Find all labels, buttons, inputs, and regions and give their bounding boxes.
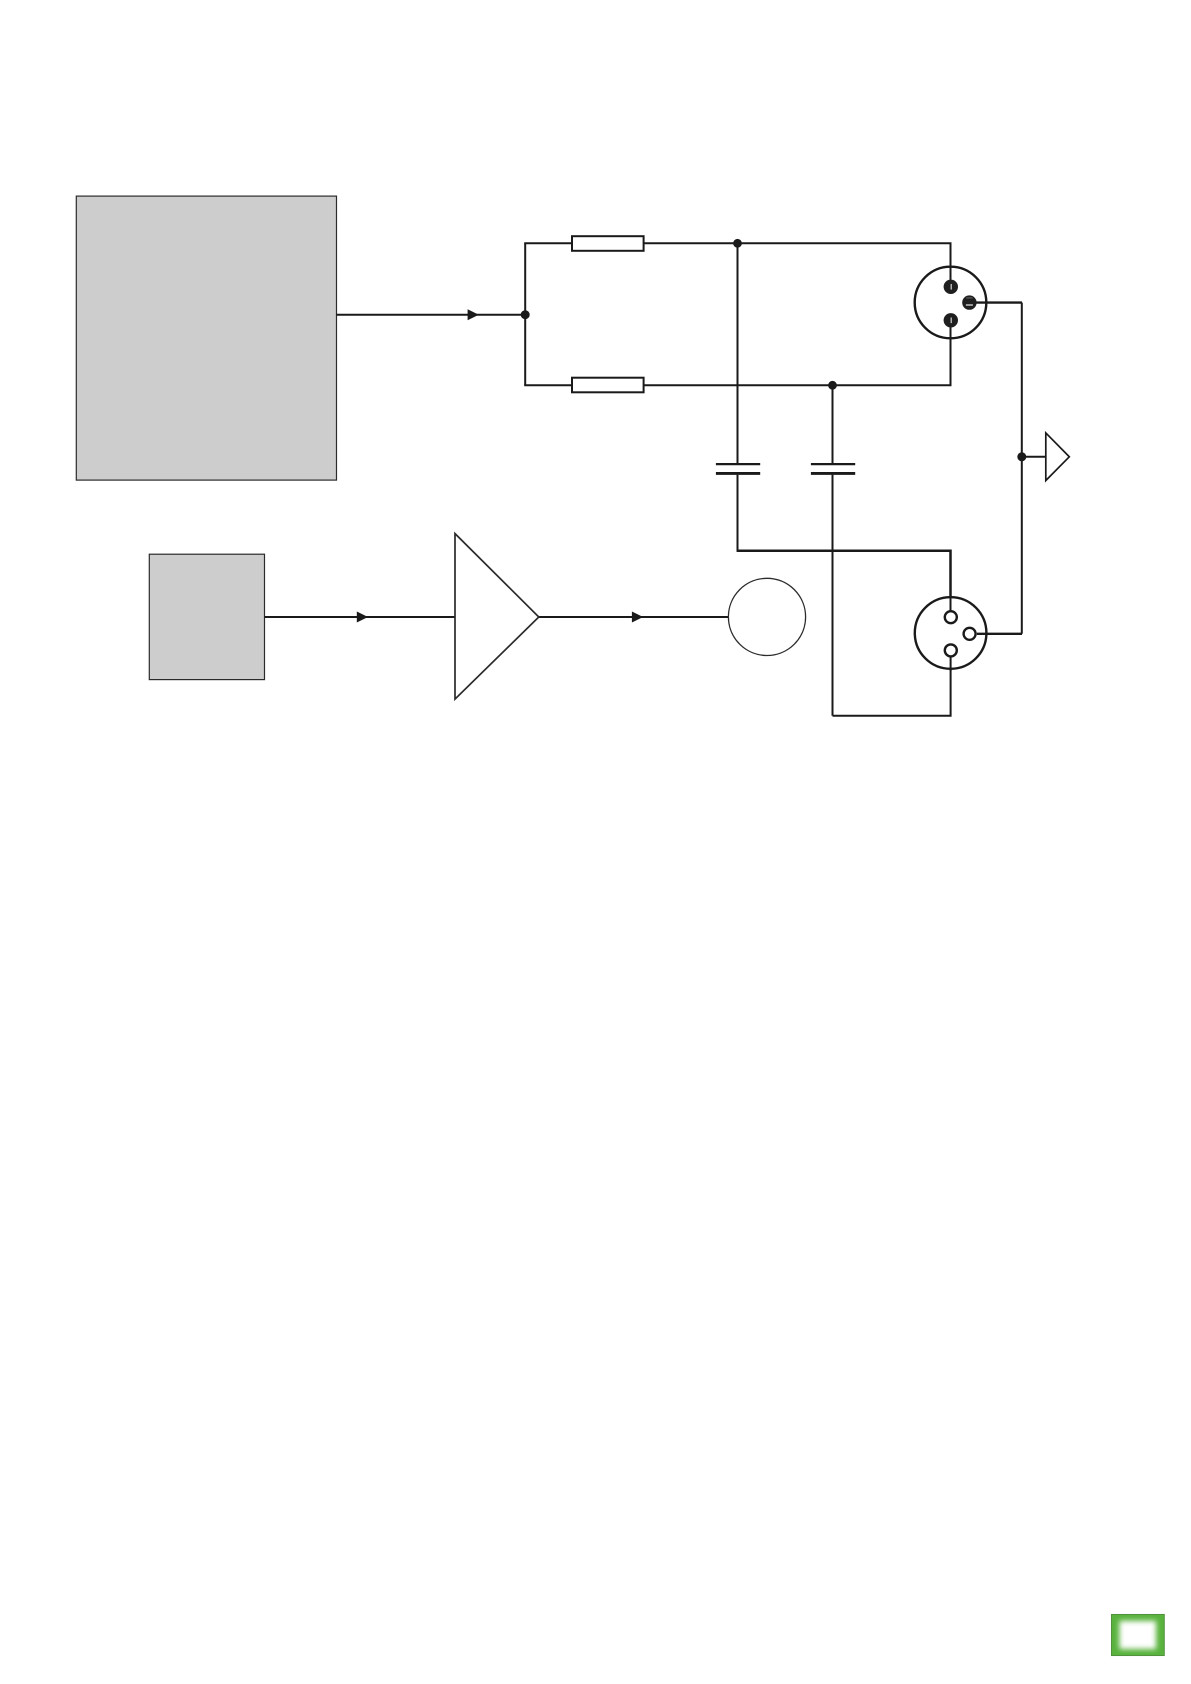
wire: small box to amplifier input — [265, 616, 456, 618]
arrowhead on amplifier output wire — [632, 612, 643, 623]
equipment block (large grey box) — [76, 196, 336, 480]
capacitor C2 bottom lead — [832, 475, 834, 716]
XLR connector J1 (male) body — [915, 267, 987, 339]
wire: C2 bottom run to XLR J2 bottom pin — [833, 658, 951, 716]
source block (small grey box) — [149, 554, 264, 679]
wire: J2 bottom pin lead inside body — [950, 657, 952, 671]
wire: J1 pin2 to right bus — [969, 301, 1022, 303]
J2 pin 2 (right, open) — [964, 628, 976, 640]
wire: J1 top pin lead inside body — [950, 266, 952, 287]
J2 pin 3 (bottom, open) — [945, 644, 957, 656]
junction dot node C (R2 run / C2) — [828, 381, 837, 390]
arrowhead on large box output wire — [468, 309, 479, 320]
wire: R2 run to XLR J1 bottom pin — [644, 320, 951, 385]
capacitor C2 top lead — [832, 385, 834, 463]
wire: J2 top pin lead inside body — [950, 595, 952, 611]
node A junction dot — [521, 310, 530, 319]
junction dot node B (top run / C1) — [733, 239, 742, 248]
wire: stub to resistor R2 — [524, 384, 573, 386]
green indicator button — [1111, 1614, 1165, 1656]
wire: node D to output triangle — [1022, 456, 1046, 458]
wire: stub to resistor R1 — [524, 242, 573, 244]
J1 pin 3 (bottom, solid) — [944, 313, 958, 327]
XLR connector J2 (female) body — [915, 597, 987, 669]
resistor R1 — [572, 236, 644, 251]
microphone M1 (circle) — [728, 578, 805, 655]
amplifier U1 (triangle) — [455, 534, 539, 700]
J2 pin 1 (top, open) — [945, 611, 957, 623]
wire: C1 to XLR J2 top pin — [738, 551, 951, 610]
arrowhead on amplifier input wire — [357, 612, 368, 623]
wire: amplifier output to microphone M1 — [538, 616, 730, 618]
capacitor C1 bottom lead — [737, 475, 739, 552]
output triangle symbol — [1046, 433, 1070, 481]
wire: vertical bus between resistor legs — [524, 243, 526, 385]
wire: large box output to node A — [337, 314, 526, 316]
wire: J2 pin2 to right bus — [977, 633, 1022, 635]
J1 pin 1 (top, solid) — [944, 280, 958, 294]
node D junction dot on right bus — [1017, 452, 1026, 461]
J1 pin 2 (right, solid) — [962, 295, 976, 309]
capacitor C1 top lead — [737, 243, 739, 463]
capacitor C1 — [716, 464, 760, 473]
resistor R2 — [572, 378, 644, 393]
wire: right vertical bus J1 pin2 to J2 pin2 — [1021, 303, 1023, 634]
wire: J1 bottom pin lead inside body — [950, 320, 952, 339]
wire: R1 to XLR J1 pin stub (top run) — [644, 243, 951, 287]
capacitor C2 — [811, 464, 855, 473]
